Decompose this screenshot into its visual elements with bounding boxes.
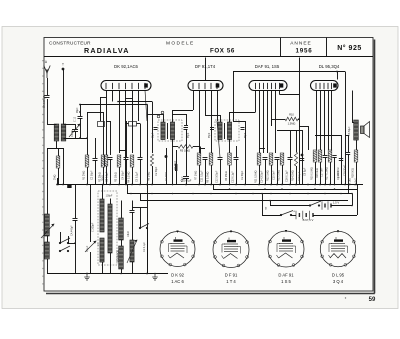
wire x199 low bbox=[199, 165, 201, 185]
svg-text:D AF 91: D AF 91 bbox=[278, 273, 294, 278]
IF transformer MF2 box bbox=[215, 120, 239, 141]
wire x132 low bbox=[132, 167, 134, 185]
junction bbox=[146, 104, 148, 106]
capacitor C2 bbox=[93, 159, 98, 161]
junction bus bbox=[289, 184, 291, 186]
wire trimmer link bbox=[64, 124, 76, 126]
wire V2 pin1 bbox=[193, 91, 195, 111]
svg-text:R4 0,1MΩ: R4 0,1MΩ bbox=[128, 172, 131, 183]
wire bus4 left drop bbox=[127, 185, 129, 194]
MF2 primary winding bbox=[218, 122, 222, 140]
wire V2 pin4 bbox=[211, 91, 213, 154]
junction bus bbox=[185, 184, 187, 186]
wire x126 top bbox=[126, 121, 128, 157]
resistor R6 bbox=[150, 154, 153, 166]
svg-text:CA 440pF: CA 440pF bbox=[71, 225, 74, 236]
wire x166 bbox=[166, 148, 168, 185]
svg-text:Cf 0,1µF: Cf 0,1µF bbox=[298, 171, 301, 181]
junction bbox=[120, 273, 122, 275]
svg-text:Ca 50pF: Ca 50pF bbox=[155, 166, 158, 176]
wire x175b bbox=[176, 150, 178, 164]
junction bus3 bbox=[324, 193, 326, 195]
wire V1 pin3 bbox=[119, 91, 121, 154]
wire x186 low bbox=[186, 178, 188, 185]
wire x186 mid bbox=[186, 129, 188, 167]
trimmer CA2 bbox=[69, 124, 80, 137]
wire x87 col bbox=[87, 112, 89, 155]
trimmer L2 core bbox=[41, 224, 54, 238]
junction batt4 bbox=[269, 200, 271, 202]
wire V3 pin3 bbox=[263, 91, 265, 154]
junction bus bbox=[210, 184, 212, 186]
wire V1 pin1 down bbox=[100, 97, 102, 121]
wire bus4 to batt bbox=[270, 201, 272, 206]
capacitor C16 bbox=[288, 158, 293, 160]
component blob on bus bbox=[67, 185, 71, 188]
junction bus2 bbox=[264, 188, 266, 190]
svg-text:CA 150 pF: CA 150 pF bbox=[42, 95, 46, 108]
svg-text:59: 59 bbox=[369, 297, 376, 303]
wire x57 stub bbox=[57, 178, 59, 185]
wire x132 mid bbox=[132, 212, 134, 240]
output transformer TR primary bbox=[354, 120, 359, 140]
capacitor C24 bbox=[339, 159, 343, 161]
svg-text:65pF: 65pF bbox=[209, 132, 211, 138]
junction bus bbox=[229, 184, 231, 186]
wire V4 pin2 bbox=[320, 91, 322, 151]
wire MF1 sec down bbox=[172, 140, 174, 185]
junction bus bbox=[102, 184, 104, 186]
junction bus3 bbox=[252, 193, 254, 195]
wire x302 h bbox=[296, 130, 302, 132]
wire x282 low bbox=[282, 165, 284, 185]
battery BHT 67,5V bbox=[296, 211, 313, 219]
svg-text:D K 92: D K 92 bbox=[171, 273, 184, 278]
wire MF2 to V3 bbox=[230, 112, 256, 114]
wire x348 h bbox=[345, 135, 348, 137]
wire L1 bottom bus bbox=[47, 148, 64, 150]
switch S2 tone bbox=[139, 224, 149, 229]
switch S1b wave change bbox=[59, 246, 70, 252]
battery BA 1,5V bbox=[322, 201, 331, 209]
antenna coil L1 primary bbox=[54, 124, 59, 141]
electrolytic C8 blob bbox=[301, 154, 304, 157]
svg-text:1 T 4: 1 T 4 bbox=[226, 279, 236, 284]
junction bus bbox=[56, 184, 58, 186]
wire x245 h bbox=[233, 121, 245, 123]
wire AVC line bbox=[80, 104, 147, 106]
wire TR bottom bbox=[356, 140, 358, 150]
wire left column down bbox=[47, 148, 49, 214]
wire R10 right bbox=[298, 119, 299, 121]
wire x106b bbox=[106, 121, 110, 123]
wire x121 top bbox=[121, 201, 123, 219]
junction bbox=[79, 137, 81, 139]
junction bus bbox=[270, 184, 272, 186]
junction row1 bbox=[351, 205, 353, 207]
wire x290 low bbox=[290, 159, 292, 185]
resistor R12 bbox=[269, 153, 273, 165]
junction bus bbox=[235, 184, 237, 186]
wire V3 pin2 bbox=[259, 91, 261, 154]
junction bus bbox=[324, 184, 326, 186]
svg-text:1,5MΩ: 1,5MΩ bbox=[288, 122, 296, 126]
ground G2 bbox=[152, 274, 158, 281]
wire x341 top bbox=[341, 135, 343, 150]
resistor R10 bbox=[285, 117, 298, 121]
wire x140 top bbox=[140, 148, 142, 157]
wire batt row1 d bbox=[331, 205, 352, 207]
wire V4 pin4 bbox=[328, 91, 330, 151]
capacitor C10 MF2 bbox=[241, 128, 245, 130]
junction bbox=[79, 104, 81, 106]
wire coupling h bbox=[277, 130, 296, 132]
capacitor C14 bbox=[263, 158, 268, 160]
tube V1 DK92 envelope bbox=[101, 81, 151, 91]
svg-text:R18 50Ω: R18 50Ω bbox=[352, 168, 355, 178]
svg-text:MODELE: MODELE bbox=[166, 40, 195, 46]
antenna coil L1 secondary bbox=[61, 124, 66, 141]
wire x245 vert bbox=[245, 121, 247, 185]
wire V1 pin4 bbox=[125, 91, 127, 185]
frame left edge texture bbox=[42, 60, 44, 288]
junction bus3 bbox=[151, 193, 153, 195]
svg-text:1 S 5: 1 S 5 bbox=[281, 279, 291, 284]
wire x290 top bbox=[290, 130, 292, 157]
wire V2 pin3 drop bbox=[205, 91, 207, 116]
svg-text:96pF: 96pF bbox=[76, 107, 79, 113]
bold label CAG bbox=[175, 164, 177, 171]
switch Int b bbox=[280, 211, 293, 216]
wire x325 low bbox=[325, 157, 327, 185]
resistor R1 bbox=[85, 155, 89, 167]
capacitor CA1 150pF bbox=[45, 96, 50, 98]
wire V2 top stub bbox=[205, 58, 207, 81]
switch S1a wave change bbox=[59, 238, 70, 244]
wire x356 low bbox=[356, 162, 358, 185]
wire V1 pin2 drop a bbox=[112, 91, 114, 102]
svg-text:Cd 0,1µF: Cd 0,1µF bbox=[143, 242, 146, 252]
tuning gang wire bbox=[80, 105, 82, 117]
svg-text:30kΩ: 30kΩ bbox=[102, 175, 105, 181]
capacitor C11 bbox=[203, 158, 208, 160]
wire V2 pin2 bbox=[199, 91, 201, 154]
junction bus3 bbox=[289, 193, 291, 195]
tube V4 DL95 envelope bbox=[311, 81, 339, 91]
capacitor C23 bbox=[300, 159, 304, 161]
svg-text:C3 0,1µF: C3 0,1µF bbox=[106, 171, 109, 182]
wire x217 mid bbox=[217, 121, 220, 157]
wire x348 top2 bbox=[348, 135, 350, 152]
svg-text:C15 5nF: C15 5nF bbox=[273, 170, 276, 180]
wire V1 pin5 bbox=[132, 91, 134, 154]
wire x308b v bbox=[308, 126, 310, 150]
resistor R4 bbox=[130, 155, 134, 167]
svg-text:CONSTRUCTEUR: CONSTRUCTEUR bbox=[49, 40, 91, 45]
schematic frame bbox=[44, 38, 373, 292]
svg-text:C 12: C 12 bbox=[74, 116, 77, 122]
junction bbox=[79, 111, 81, 113]
wire x220 low bbox=[220, 159, 222, 185]
svg-text:R14 2MΩ: R14 2MΩ bbox=[292, 170, 295, 181]
junction bus3 bbox=[235, 193, 237, 195]
svg-text:T: T bbox=[62, 63, 64, 67]
wire bus3 to batt bbox=[262, 194, 264, 216]
wire x352 top bbox=[352, 91, 354, 123]
wire trimmer top bbox=[75, 124, 77, 129]
wire filament drop right bbox=[345, 72, 347, 185]
svg-text:R8 0,5MΩ: R8 0,5MΩ bbox=[207, 172, 210, 183]
wire V3 pin6 bbox=[275, 91, 277, 154]
svg-text:C19 20nF: C19 20nF bbox=[344, 165, 347, 176]
junction bus3 bbox=[307, 193, 309, 195]
wire x103 bbox=[103, 112, 105, 155]
junction bus3 bbox=[172, 193, 174, 195]
junction bus bbox=[264, 184, 266, 186]
oscillator coil L2 bbox=[45, 214, 50, 236]
capacitor CV1 gang bbox=[78, 117, 83, 119]
filter choke L7 bbox=[119, 246, 124, 269]
wire V3 pin1 bbox=[255, 91, 257, 113]
bus line 2 bbox=[213, 189, 357, 191]
wire x75 sw bbox=[68, 243, 75, 245]
resistor R8 bbox=[209, 153, 213, 165]
wire V4 pin3 bbox=[324, 91, 326, 156]
svg-text:1,5 V: 1,5 V bbox=[333, 201, 340, 205]
junction bus bbox=[344, 184, 346, 186]
svg-text:R16 1kΩ: R16 1kΩ bbox=[316, 168, 319, 178]
wire x140 sw top bbox=[140, 207, 142, 228]
wire bus2 left drop bbox=[213, 185, 215, 190]
svg-text:C1 25: C1 25 bbox=[71, 130, 74, 137]
wire MF1 sec top bbox=[172, 110, 174, 122]
junction bus3 bbox=[210, 193, 212, 195]
wire x110 bbox=[110, 121, 112, 155]
junction bus3 bbox=[192, 193, 194, 195]
svg-text:C12 100pF: C12 100pF bbox=[216, 170, 219, 183]
wire MF2 link bbox=[205, 115, 220, 117]
capacitor C22 bbox=[130, 211, 135, 213]
wire x63 mid bbox=[63, 148, 65, 185]
wire x106 ext bbox=[106, 121, 108, 155]
svg-text:+: + bbox=[293, 210, 295, 214]
wire x110 low bbox=[110, 159, 112, 185]
capacitor C20 decoupling bbox=[183, 177, 189, 179]
capacitor C7 MF1 bbox=[184, 128, 188, 130]
tube base diagram DK92 bbox=[160, 231, 195, 267]
wire grid bus bbox=[64, 138, 88, 140]
wire x271 low bbox=[271, 165, 273, 185]
wire C4b right bbox=[137, 123, 141, 125]
MF1 secondary winding bbox=[170, 122, 174, 140]
capacitor C7b bbox=[184, 126, 188, 128]
IF transformer MF1 box bbox=[158, 120, 182, 141]
wire x103 low bbox=[103, 167, 105, 185]
junction bus bbox=[307, 184, 309, 186]
wire x140 low bbox=[140, 159, 142, 185]
antenna A1 bbox=[44, 66, 50, 79]
junction bus bbox=[131, 184, 133, 186]
junction bus bbox=[118, 184, 120, 186]
wire L5 bottom bbox=[110, 253, 112, 274]
wire MF2 sec down bbox=[229, 140, 231, 154]
capacitor C3 bbox=[108, 158, 113, 160]
resistor R7 bbox=[197, 153, 201, 165]
tube V3 DAF91 envelope bbox=[249, 81, 287, 91]
wire V1 pin1 bbox=[106, 91, 108, 98]
svg-text:C 200pF: C 200pF bbox=[92, 222, 95, 232]
junction bus bbox=[204, 184, 206, 186]
resistor R15 bbox=[313, 150, 317, 162]
junction bus bbox=[151, 184, 153, 186]
svg-text:DL 95,3Q4: DL 95,3Q4 bbox=[319, 64, 340, 69]
resistor R16 bbox=[318, 150, 322, 162]
wire bus4 left drop2 bbox=[140, 194, 142, 201]
trimmer CV2 osc bbox=[85, 241, 96, 252]
svg-text:D L 95: D L 95 bbox=[332, 273, 345, 278]
wire x334 low bbox=[334, 157, 336, 185]
junction R10 bbox=[298, 118, 300, 120]
wire MF1 core bbox=[167, 123, 169, 139]
title block bottom rule bbox=[44, 56, 373, 58]
wire x87 top bbox=[87, 112, 103, 114]
svg-text:2MΩ: 2MΩ bbox=[54, 175, 57, 180]
junction bus bbox=[198, 184, 200, 186]
wire x236 top bbox=[236, 146, 238, 157]
loudspeaker HP bbox=[361, 122, 370, 138]
wire antenna down bbox=[47, 78, 49, 95]
wire det line x299 bbox=[299, 58, 301, 185]
svg-text:DAF 91, 1S5: DAF 91, 1S5 bbox=[255, 64, 280, 69]
oscillator block box bbox=[98, 191, 117, 265]
svg-text:R10: R10 bbox=[289, 113, 294, 117]
svg-text:R5 10kΩ: R5 10kΩ bbox=[180, 149, 190, 153]
wire x119 low bbox=[119, 167, 121, 185]
wire V4 pin1 bbox=[316, 91, 318, 151]
wire MF2 sec top bbox=[229, 112, 231, 122]
wire TR tap bbox=[352, 122, 354, 124]
capacitor C9 MF2 bbox=[210, 128, 214, 130]
wire x259 low bbox=[259, 165, 261, 185]
wire osc grid link bbox=[118, 101, 152, 103]
switch Int a bbox=[309, 201, 321, 206]
MF1 primary winding bbox=[161, 122, 165, 140]
resistor R19 bbox=[104, 155, 108, 166]
wire batt row2 b bbox=[313, 215, 357, 217]
wire x90 low bbox=[90, 252, 92, 274]
wire x140 h bbox=[132, 207, 147, 209]
junction bus2 bbox=[334, 188, 336, 190]
terminal b bbox=[161, 111, 164, 114]
speck bbox=[345, 297, 346, 298]
wire MF2 core bbox=[224, 123, 226, 139]
junction bus bbox=[62, 184, 64, 186]
junction bbox=[74, 242, 76, 244]
capacitor C19 output bbox=[346, 153, 350, 155]
wire x229 low bbox=[229, 165, 231, 185]
wire L2-L3 link bbox=[47, 236, 49, 242]
junction bbox=[86, 273, 88, 275]
resistor R20 bbox=[56, 156, 60, 168]
capacitor box C4b bbox=[129, 122, 137, 127]
svg-text:N° 925: N° 925 bbox=[337, 44, 361, 52]
wire R5 left bbox=[173, 146, 179, 148]
wire batt row2 a bbox=[262, 215, 281, 217]
wire x175c bbox=[176, 171, 178, 185]
svg-text:0,1µF: 0,1µF bbox=[86, 245, 89, 252]
junction bus3 bbox=[351, 193, 353, 195]
svg-text:BOBINAGE: BOBINAGE bbox=[117, 250, 120, 262]
svg-text:C16 0,1µF: C16 0,1µF bbox=[286, 170, 289, 182]
terminal a bbox=[157, 115, 160, 118]
bus line 3 bbox=[127, 193, 352, 195]
MF2 secondary winding bbox=[227, 122, 231, 140]
tube base diagram DAF91 bbox=[268, 230, 304, 267]
svg-text:R12 1MΩ: R12 1MΩ bbox=[267, 170, 270, 181]
resistor R14 bbox=[294, 152, 297, 166]
wire x330 low bbox=[330, 162, 332, 185]
wire sw2 low bbox=[147, 228, 149, 274]
junction bus bbox=[295, 184, 297, 186]
wire x320 low bbox=[320, 162, 322, 185]
resistor R11 bbox=[257, 153, 261, 165]
capacitor box C4a bbox=[98, 122, 105, 127]
wire x205 low bbox=[205, 159, 207, 185]
wire x147 main bbox=[147, 105, 149, 274]
wire sw feed bbox=[60, 232, 62, 243]
svg-text:CS 50µF: CS 50µF bbox=[348, 126, 351, 136]
svg-text:R11 0,5MΩ: R11 0,5MΩ bbox=[255, 170, 258, 183]
osc coil L4a bbox=[100, 199, 104, 232]
resistor R13 bbox=[280, 153, 284, 165]
svg-text:C4 50pF: C4 50pF bbox=[122, 170, 125, 180]
svg-text:65pF: 65pF bbox=[188, 132, 190, 138]
wire V1 pin4 elbow bbox=[126, 98, 134, 100]
wire x140 mid bbox=[140, 124, 142, 149]
wire V2 pin5 bbox=[217, 91, 219, 122]
frame shadow bottom bbox=[46, 293, 375, 295]
wire L4 bottom bbox=[102, 262, 104, 274]
junction bus bbox=[219, 184, 221, 186]
svg-text:65pF: 65pF bbox=[153, 132, 155, 138]
capacitor C4 bbox=[124, 158, 129, 160]
svg-text:R7 1MΩ: R7 1MΩ bbox=[195, 171, 198, 180]
wire x348 low2 bbox=[348, 154, 350, 194]
capacitor C18 bbox=[332, 156, 336, 158]
oscillator coil L3 bbox=[45, 242, 50, 259]
junction bbox=[146, 273, 148, 275]
frame shadow right bbox=[374, 40, 376, 294]
wire link h2 bbox=[199, 148, 205, 150]
wire R10 left bbox=[272, 119, 286, 121]
tube base diagram DL95 bbox=[320, 230, 355, 266]
filter choke L6 bbox=[119, 218, 124, 240]
junction bus3 bbox=[130, 193, 132, 195]
svg-text:C5 0,1µF: C5 0,1µF bbox=[136, 171, 139, 182]
wire x95 low bbox=[95, 160, 97, 185]
resistor R17 bbox=[328, 150, 332, 162]
title divider 1 bbox=[280, 38, 282, 57]
resistor R18 bbox=[354, 150, 358, 162]
junction bus2 bbox=[314, 188, 316, 190]
svg-text:R3 10kΩ: R3 10kΩ bbox=[115, 172, 118, 182]
svg-text:3 Q 4: 3 Q 4 bbox=[333, 279, 344, 284]
junction bus bbox=[329, 184, 331, 186]
resistor R2 bbox=[101, 155, 105, 167]
capacitor C15 bbox=[275, 158, 280, 160]
wire MF1 top pri bbox=[163, 114, 165, 122]
wire L3 bottom bbox=[47, 259, 49, 274]
